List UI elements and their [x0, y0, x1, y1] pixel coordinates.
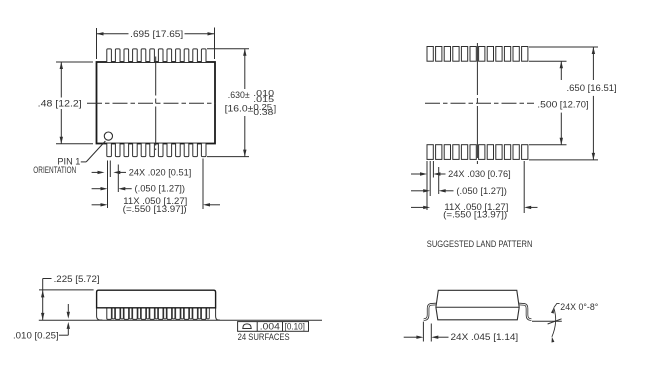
- svg-text:[12.70]: [12.70]: [560, 100, 589, 110]
- svg-text:.004: .004: [260, 321, 280, 331]
- svg-text:SUGGESTED LAND PATTERN: SUGGESTED LAND PATTERN: [427, 239, 533, 249]
- svg-text:.650 [16.51]: .650 [16.51]: [567, 83, 617, 93]
- svg-text:24X .045 [1.14]: 24X .045 [1.14]: [451, 332, 519, 342]
- svg-text:24X .030 [0.76]: 24X .030 [0.76]: [448, 169, 511, 179]
- svg-text:.630±: .630±: [228, 90, 250, 100]
- svg-text:24X .020 [0.51]: 24X .020 [0.51]: [129, 167, 192, 177]
- svg-text:24 SURFACES: 24 SURFACES: [238, 332, 290, 342]
- svg-text:(.050 [1.27]): (.050 [1.27]): [456, 186, 507, 196]
- svg-text:0.38: 0.38: [253, 108, 274, 117]
- svg-text:.500: .500: [537, 100, 557, 110]
- svg-text:24X 0°-8°: 24X 0°-8°: [560, 302, 598, 312]
- svg-text:(=.550 [13.97]): (=.550 [13.97]): [443, 210, 507, 220]
- svg-text:.695 [17.65]: .695 [17.65]: [130, 29, 183, 39]
- svg-text:.225 [5.72]: .225 [5.72]: [54, 274, 100, 284]
- svg-text:.48 [12.2]: .48 [12.2]: [38, 98, 82, 108]
- svg-text:.010 [0.25]: .010 [0.25]: [13, 330, 59, 340]
- svg-text:(.050 [1.27]): (.050 [1.27]): [135, 184, 186, 194]
- svg-text:[0.10]: [0.10]: [285, 321, 305, 331]
- svg-text:[16.0±: [16.0±: [225, 104, 254, 114]
- svg-text:ORIENTATION: ORIENTATION: [33, 165, 76, 175]
- svg-text:(=.550 [13.97]): (=.550 [13.97]): [123, 204, 187, 214]
- svg-text:]: ]: [274, 104, 277, 114]
